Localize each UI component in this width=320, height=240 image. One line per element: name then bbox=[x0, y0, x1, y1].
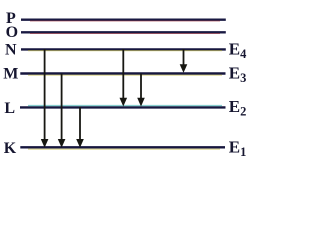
shell label N bbox=[5, 41, 17, 58]
shell label P bbox=[6, 10, 16, 27]
svg-text:E2: E2 bbox=[229, 97, 247, 119]
energy label E3 bbox=[229, 63, 247, 85]
transition arrow N to K bbox=[41, 49, 49, 148]
svg-text:E1: E1 bbox=[229, 137, 247, 159]
shell label O bbox=[6, 24, 18, 41]
level line N (E4) bbox=[21, 49, 226, 50]
transition arrow M to K bbox=[58, 74, 66, 148]
level line K (E1) bbox=[20, 147, 225, 149]
transition arrow L to K bbox=[76, 107, 84, 148]
svg-text:L: L bbox=[4, 100, 15, 117]
svg-text:K: K bbox=[4, 140, 17, 157]
level line P bbox=[21, 20, 226, 21]
transition arrow N to L bbox=[120, 49, 128, 107]
svg-text:E4: E4 bbox=[229, 39, 247, 61]
svg-text:N: N bbox=[5, 41, 17, 58]
svg-text:E3: E3 bbox=[229, 63, 247, 85]
transition arrow M to L bbox=[137, 74, 145, 107]
transition arrow N to M bbox=[180, 49, 188, 73]
energy label E2 bbox=[229, 97, 247, 119]
shell label K bbox=[4, 140, 17, 157]
shell label L bbox=[4, 100, 15, 117]
level line L (E2) bbox=[20, 106, 226, 108]
energy label E1 bbox=[229, 137, 247, 159]
svg-text:M: M bbox=[3, 66, 18, 83]
svg-text:O: O bbox=[6, 24, 18, 41]
shell label M bbox=[3, 66, 18, 83]
level line M (E3) bbox=[20, 74, 225, 76]
energy label E4 bbox=[229, 39, 247, 61]
level line O bbox=[21, 32, 226, 33]
